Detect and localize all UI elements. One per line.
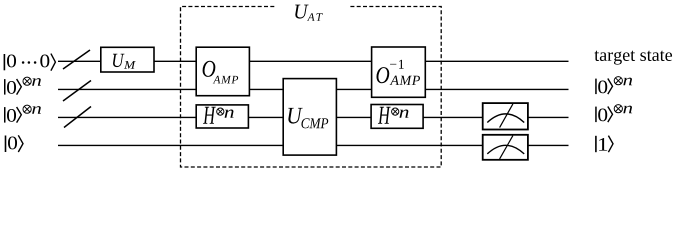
- ket |0>^otimes-n input label wire q2: [4, 77, 41, 95]
- ket |0> input label wire q4: [5, 135, 23, 152]
- ket |0>^otimes-n output label wire q2: [595, 77, 632, 95]
- wire q2: [58, 88, 569, 90]
- gate U_M label: [113, 54, 136, 69]
- gate O_AMP box: [196, 47, 249, 95]
- label target state (wire q1 output): [594, 51, 672, 65]
- gate H^otimes-n box (left): [196, 105, 248, 128]
- gate U_CMP box: [283, 79, 336, 156]
- bundle slash wire q1: [63, 50, 90, 69]
- label U_AT: [295, 5, 323, 21]
- ket |1> output label wire q4: [595, 136, 613, 153]
- ket |0>^otimes-n output label wire q3: [595, 105, 632, 123]
- gate O_AMP label: [203, 61, 239, 84]
- wire q4 (bottom): [58, 144, 569, 146]
- bundle slash wire q2: [63, 81, 91, 102]
- wire q1 (top): [58, 60, 569, 62]
- gate O_AMP^-1 box: [372, 47, 426, 97]
- gate O_AMP^-1 label: [376, 60, 420, 85]
- gate H^otimes-n label (left): [203, 107, 234, 124]
- ket |0...0> input label wire q1: [4, 54, 56, 71]
- gate H^otimes-n box (right): [371, 105, 423, 129]
- ket |0>^otimes-n input label wire q3: [4, 105, 41, 123]
- dashed box U_AT boundary: [181, 7, 442, 168]
- measurement meter box wire q3: [483, 103, 528, 129]
- wire q3: [58, 116, 569, 118]
- bundle slash wire q3: [64, 107, 91, 128]
- gate H^otimes-n label (right): [378, 107, 409, 124]
- gate U_CMP label: [288, 108, 328, 129]
- gate U_M box: [101, 47, 154, 72]
- measurement meter box wire q4: [483, 135, 528, 160]
